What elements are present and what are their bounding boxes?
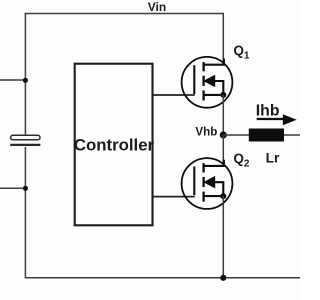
wire Vhb to Lr [223,134,249,136]
controller U1 box [75,64,153,226]
node bottom junction [220,275,226,281]
wire Vin top rail [25,13,224,15]
svg-text:Vin: Vin [148,0,166,14]
wire gate drive Q2 [154,196,195,198]
arrow Ihb current direction [257,118,287,120]
svg-text:Ihb: Ihb [256,103,280,120]
wire input stub lower [0,187,26,189]
inductor Lr body [249,129,284,142]
capacitor C bottom plate [10,144,40,146]
capacitor C top plate [11,135,40,140]
wire Q2 source to bottom rail [222,196,224,278]
transistor Q2 [182,158,233,209]
svg-text:Lr: Lr [266,151,280,166]
svg-text:Vhb: Vhb [195,126,217,139]
wire Lr output [284,134,300,136]
node junction dot lower left [23,186,28,191]
wire gate drive Q1 [154,94,195,96]
wire input stub upper [0,79,26,81]
wire left branch lower (capacitor to bottom rail) [24,147,26,278]
svg-text:Q1: Q1 [234,43,250,61]
wire Q1 source to Vhb [222,95,224,135]
transistor Q1 [182,57,233,108]
wire bottom rail [25,277,300,279]
wire Vhb to Q2 drain [222,135,224,166]
svg-text:Controller: Controller [74,136,155,155]
svg-text:Q2: Q2 [234,151,250,169]
wire Q1 drain from Vin rail [222,13,224,65]
wire left branch upper (Vin rail to capacitor) [24,13,26,136]
node Vhb [220,131,227,138]
node junction dot upper left [23,78,28,83]
